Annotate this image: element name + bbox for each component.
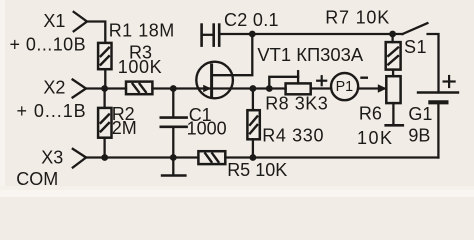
svg-text:+ 0...10В: + 0...10В	[10, 34, 87, 54]
svg-text:X1: X1	[43, 11, 65, 31]
svg-text:10K: 10K	[357, 128, 394, 148]
svg-text:VT1 КП303А: VT1 КП303А	[257, 44, 363, 65]
svg-text:R7 10K: R7 10K	[325, 8, 390, 28]
svg-text:1000: 1000	[187, 119, 227, 139]
svg-text:R5 10K: R5 10K	[227, 160, 287, 180]
svg-text:100K: 100K	[118, 57, 162, 77]
svg-text:R1 18M: R1 18M	[109, 21, 175, 41]
svg-text:9В: 9В	[408, 126, 430, 146]
svg-text:P1: P1	[336, 79, 354, 95]
svg-text:R4 330: R4 330	[262, 126, 324, 146]
svg-text:2M: 2M	[112, 118, 137, 138]
svg-text:R6: R6	[359, 104, 382, 124]
svg-text:X2: X2	[43, 78, 65, 98]
svg-text:COM: COM	[16, 169, 58, 189]
svg-text:C2 0.1: C2 0.1	[224, 10, 279, 30]
svg-text:X3: X3	[41, 148, 63, 168]
svg-text:R8 3K3: R8 3K3	[265, 94, 328, 114]
svg-text:G1: G1	[408, 104, 432, 124]
svg-text:S1: S1	[404, 37, 427, 57]
svg-text:+ 0...1В: + 0...1В	[17, 101, 87, 121]
